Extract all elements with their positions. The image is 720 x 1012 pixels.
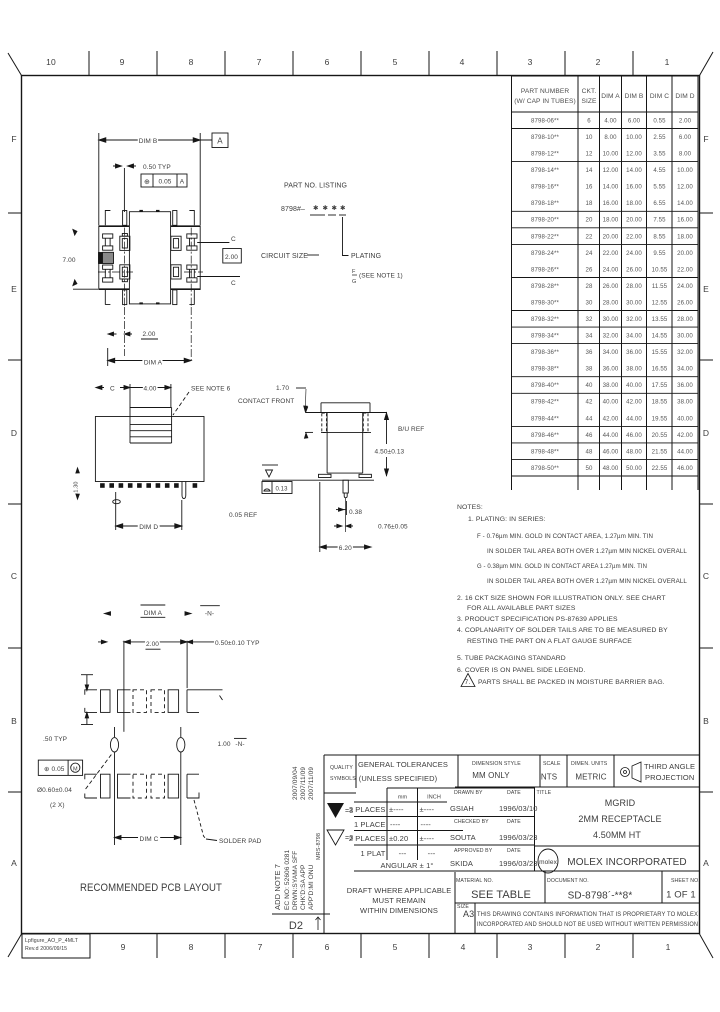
- svg-text:6.55: 6.55: [653, 200, 666, 207]
- svg-text:6.00: 6.00: [679, 134, 692, 141]
- svg-text:A: A: [217, 137, 223, 146]
- svg-text:20.00: 20.00: [677, 250, 693, 257]
- svg-text:CHECKED BY: CHECKED BY: [454, 819, 489, 825]
- svg-text:34.00: 34.00: [603, 349, 619, 356]
- svg-text:5: 5: [393, 57, 398, 67]
- svg-text:3. PRODUCT SPECIFICATION PS-87: 3. PRODUCT SPECIFICATION PS-87639 APPLIE…: [457, 616, 618, 623]
- svg-text:C: C: [231, 236, 236, 243]
- svg-text:RECOMMENDED PCB LAYOUT: RECOMMENDED PCB LAYOUT: [80, 882, 222, 894]
- svg-text:2.00: 2.00: [225, 254, 238, 261]
- svg-text:DATE: DATE: [507, 819, 521, 825]
- svg-text:2.55: 2.55: [653, 134, 666, 141]
- svg-text:1. PLATING: IN SERIES:: 1. PLATING: IN SERIES:: [468, 516, 546, 523]
- svg-text:4.50MM HT: 4.50MM HT: [593, 830, 641, 840]
- svg-text:E: E: [703, 284, 709, 294]
- svg-text:1996/03/10: 1996/03/10: [499, 804, 538, 813]
- svg-text:8798-16**: 8798-16**: [531, 184, 560, 191]
- svg-text:---: ---: [399, 849, 407, 858]
- svg-text:16.00: 16.00: [626, 184, 642, 191]
- svg-text:QUALITY: QUALITY: [330, 765, 353, 771]
- svg-text:MM ONLY: MM ONLY: [472, 771, 510, 780]
- svg-text:48.00: 48.00: [603, 465, 619, 472]
- svg-text:10: 10: [46, 57, 56, 67]
- svg-text:DIM A: DIM A: [601, 93, 620, 100]
- svg-text:14.55: 14.55: [652, 333, 668, 340]
- svg-text:38.00: 38.00: [677, 399, 693, 406]
- svg-text:----: ----: [421, 820, 432, 829]
- svg-text:NOTES:: NOTES:: [457, 504, 483, 511]
- svg-text:32.00: 32.00: [677, 349, 693, 356]
- svg-text:32.00: 32.00: [626, 316, 642, 323]
- svg-text:SCALE: SCALE: [543, 761, 561, 767]
- svg-text:2 PLACES: 2 PLACES: [349, 834, 386, 843]
- svg-text:F: F: [11, 134, 16, 144]
- svg-text:8798-20**: 8798-20**: [531, 217, 560, 224]
- svg-text:CONTACT FRONT: CONTACT FRONT: [238, 398, 294, 405]
- svg-text:24.00: 24.00: [626, 250, 642, 257]
- svg-text:DIM C: DIM C: [140, 836, 159, 843]
- svg-text:±----: ±----: [420, 805, 435, 814]
- svg-text:DIM B: DIM B: [625, 93, 644, 100]
- svg-text:6: 6: [325, 57, 330, 67]
- svg-text:NTS: NTS: [541, 773, 557, 782]
- svg-text:3.55: 3.55: [653, 151, 666, 158]
- svg-text:2. 16 CKT SIZE SHOWN FOR ILLUS: 2. 16 CKT SIZE SHOWN FOR ILLUSTRATION ON…: [457, 595, 666, 602]
- svg-text:PLATING: PLATING: [351, 253, 381, 260]
- svg-text:22.55: 22.55: [652, 465, 668, 472]
- svg-text:⊕: ⊕: [144, 179, 150, 186]
- svg-text:0.05 REF: 0.05 REF: [229, 512, 257, 519]
- svg-text:DRWN:SYAMA SFF: DRWN:SYAMA SFF: [292, 851, 299, 910]
- svg-text:0.38: 0.38: [349, 509, 362, 516]
- svg-text:34.00: 34.00: [677, 366, 693, 373]
- svg-text:8798-06**: 8798-06**: [531, 118, 560, 125]
- svg-text:.50 TYP: .50 TYP: [43, 736, 67, 743]
- svg-text:APPROVED BY: APPROVED BY: [454, 848, 493, 854]
- svg-text:30.00: 30.00: [603, 316, 619, 323]
- svg-text:----: ----: [390, 820, 401, 829]
- svg-text:C: C: [11, 571, 17, 581]
- svg-text:-N-: -N-: [205, 611, 214, 618]
- svg-text:28.00: 28.00: [626, 283, 642, 290]
- svg-text:DIM A: DIM A: [144, 360, 163, 367]
- svg-text:8798-40**: 8798-40**: [531, 382, 560, 389]
- svg-text:0.50±0.10 TYP: 0.50±0.10 TYP: [215, 640, 260, 647]
- svg-text:CIRCUIT SIZE: CIRCUIT SIZE: [261, 253, 308, 260]
- svg-text:5.55: 5.55: [653, 184, 666, 191]
- svg-text:1: 1: [666, 942, 671, 952]
- svg-text:22: 22: [586, 233, 593, 240]
- svg-text:1 OF 1: 1 OF 1: [666, 890, 696, 901]
- svg-text:2: 2: [596, 57, 601, 67]
- svg-text:28.00: 28.00: [603, 300, 619, 307]
- svg-text:D: D: [703, 428, 709, 438]
- svg-text:1996/03/23: 1996/03/23: [499, 833, 538, 842]
- svg-text:8798-12**: 8798-12**: [531, 151, 560, 158]
- svg-text:0.13: 0.13: [275, 487, 288, 493]
- svg-text:±0.20: ±0.20: [389, 834, 408, 843]
- svg-text:2007/11/09: 2007/11/09: [308, 767, 315, 800]
- svg-text:20: 20: [586, 217, 593, 224]
- svg-text:18: 18: [586, 200, 593, 207]
- svg-text:D: D: [11, 428, 17, 438]
- svg-text:-N-: -N-: [235, 741, 244, 748]
- svg-text:32: 32: [586, 316, 593, 323]
- svg-text:18.00: 18.00: [626, 200, 642, 207]
- svg-text:MRS-8798: MRS-8798: [316, 833, 322, 860]
- svg-text:8798-28**: 8798-28**: [531, 283, 560, 290]
- svg-text:46.00: 46.00: [603, 448, 619, 455]
- svg-text:B/U REF: B/U REF: [398, 426, 424, 433]
- svg-text:8798-26**: 8798-26**: [531, 266, 560, 273]
- svg-text:6.00: 6.00: [628, 118, 641, 125]
- svg-text:M: M: [73, 766, 78, 772]
- svg-text:8798-32**: 8798-32**: [531, 316, 560, 323]
- svg-text:16.00: 16.00: [677, 217, 693, 224]
- svg-text:18.00: 18.00: [677, 233, 693, 240]
- svg-text:14.00: 14.00: [603, 184, 619, 191]
- svg-text:8798#–: 8798#–: [281, 206, 305, 213]
- svg-text:Lpfigure_AO_P_4MLT: Lpfigure_AO_P_4MLT: [25, 938, 79, 944]
- svg-text:30.00: 30.00: [677, 333, 693, 340]
- svg-text:8.00: 8.00: [679, 151, 692, 158]
- svg-text:40.00: 40.00: [603, 399, 619, 406]
- svg-text:B: B: [11, 716, 17, 726]
- svg-text:0.50 TYP: 0.50 TYP: [143, 164, 171, 171]
- svg-text:FOR ALL AVAILABLE PART SIZES: FOR ALL AVAILABLE PART SIZES: [467, 605, 576, 612]
- svg-text:24.00: 24.00: [603, 266, 619, 273]
- svg-text:4.00: 4.00: [143, 386, 156, 393]
- svg-text:SOUTA: SOUTA: [450, 833, 476, 842]
- svg-text:TITLE: TITLE: [537, 790, 552, 796]
- svg-text:DATE: DATE: [507, 790, 521, 796]
- svg-text:ANGULAR ± 1°: ANGULAR ± 1°: [381, 861, 434, 870]
- svg-text:EC NO: 52606 0281: EC NO: 52606 0281: [284, 849, 291, 910]
- svg-text:26.00: 26.00: [603, 283, 619, 290]
- svg-text:ADD NOTE 7: ADD NOTE 7: [273, 864, 282, 910]
- svg-text:✱: ✱: [313, 204, 319, 212]
- svg-text:B: B: [703, 716, 709, 726]
- svg-text:PARTS SHALL BE PACKED IN MOIST: PARTS SHALL BE PACKED IN MOISTURE BARRIE…: [478, 679, 665, 686]
- svg-text:9.55: 9.55: [653, 250, 666, 257]
- svg-text:21.55: 21.55: [652, 448, 668, 455]
- svg-text:E: E: [11, 284, 17, 294]
- svg-text:22.00: 22.00: [626, 233, 642, 240]
- svg-text:Rev.d 2006/09/15: Rev.d 2006/09/15: [25, 946, 67, 952]
- svg-text:A: A: [180, 179, 185, 186]
- svg-text:(W/ CAP IN TUBES): (W/ CAP IN TUBES): [514, 98, 576, 105]
- svg-text:11.55: 11.55: [652, 283, 668, 290]
- svg-text:12.00: 12.00: [677, 184, 693, 191]
- svg-text:46.00: 46.00: [626, 432, 642, 439]
- svg-text:13.55: 13.55: [652, 316, 668, 323]
- svg-text:DIMENSION STYLE: DIMENSION STYLE: [472, 761, 521, 767]
- svg-text:G: G: [352, 279, 356, 285]
- svg-text:24.00: 24.00: [677, 283, 693, 290]
- svg-text:10.00: 10.00: [677, 167, 693, 174]
- svg-text:✱: ✱: [332, 204, 338, 212]
- svg-text:48: 48: [586, 448, 593, 455]
- svg-text:0.76±0.05: 0.76±0.05: [378, 524, 408, 531]
- svg-text:8798-22**: 8798-22**: [531, 233, 560, 240]
- svg-text:20.55: 20.55: [652, 432, 668, 439]
- svg-text:THIS DRAWING CONTAINS INFORMAT: THIS DRAWING CONTAINS INFORMATION THAT I…: [477, 911, 698, 918]
- svg-text:C: C: [110, 386, 115, 393]
- svg-text:GENERAL TOLERANCES: GENERAL TOLERANCES: [358, 760, 448, 769]
- svg-text:A3: A3: [463, 909, 474, 919]
- svg-text:1.30: 1.30: [74, 481, 80, 492]
- svg-text:12.00: 12.00: [626, 151, 642, 158]
- svg-text:INCH: INCH: [427, 795, 441, 801]
- svg-text:8798-18**: 8798-18**: [531, 200, 560, 207]
- svg-text:40.00: 40.00: [677, 415, 693, 422]
- svg-text:MATERIAL NO.: MATERIAL NO.: [456, 878, 493, 884]
- svg-text:8798-10**: 8798-10**: [531, 134, 560, 141]
- svg-text:THIRD ANGLE: THIRD ANGLE: [644, 762, 695, 771]
- svg-text:44.00: 44.00: [603, 432, 619, 439]
- svg-text:8798-44**: 8798-44**: [531, 415, 560, 422]
- svg-text:8.55: 8.55: [653, 233, 666, 240]
- svg-text:8798-34**: 8798-34**: [531, 333, 560, 340]
- svg-text:5. TUBE PACKAGING STANDARD: 5. TUBE PACKAGING STANDARD: [457, 655, 566, 662]
- svg-text:1: 1: [665, 57, 670, 67]
- svg-text:1 PLAT: 1 PLAT: [360, 849, 385, 858]
- svg-text:APP'D:MI ONU: APP'D:MI ONU: [308, 864, 315, 910]
- svg-text:1996/03/23: 1996/03/23: [499, 859, 538, 868]
- svg-text:38: 38: [586, 366, 593, 373]
- svg-text:SOLDER PAD: SOLDER PAD: [219, 838, 262, 845]
- svg-text:8798-38**: 8798-38**: [531, 366, 560, 373]
- svg-text:44.00: 44.00: [626, 415, 642, 422]
- svg-text:7.55: 7.55: [653, 217, 666, 224]
- svg-text:F: F: [352, 269, 356, 275]
- svg-text:6: 6: [587, 118, 591, 125]
- svg-text:2.00: 2.00: [142, 331, 155, 338]
- svg-text:10.00: 10.00: [603, 151, 619, 158]
- svg-text:2007/11/09: 2007/11/09: [300, 767, 307, 800]
- svg-text:---: ---: [428, 849, 436, 858]
- svg-text:28: 28: [586, 283, 593, 290]
- svg-text:12.00: 12.00: [603, 167, 619, 174]
- svg-text:5: 5: [393, 942, 398, 952]
- svg-text:16.00: 16.00: [603, 200, 619, 207]
- svg-text:18.55: 18.55: [652, 399, 668, 406]
- svg-text:10.00: 10.00: [626, 134, 642, 141]
- svg-text:0.55: 0.55: [653, 118, 666, 125]
- svg-text:10: 10: [586, 134, 593, 141]
- svg-text:28.00: 28.00: [677, 316, 693, 323]
- svg-text:38.00: 38.00: [603, 382, 619, 389]
- svg-text:2MM RECEPTACLE: 2MM RECEPTACLE: [578, 814, 661, 824]
- svg-text:CKT.: CKT.: [582, 88, 597, 95]
- svg-text:MOLEX INCORPORATED: MOLEX INCORPORATED: [567, 857, 686, 868]
- svg-text:50: 50: [586, 465, 593, 472]
- svg-text:7.00: 7.00: [63, 257, 76, 264]
- svg-text:Ø0.60±0.04: Ø0.60±0.04: [37, 787, 72, 794]
- svg-text:8798-30**: 8798-30**: [531, 300, 560, 307]
- svg-text:G - 0.38µm MIN. GOLD IN CONTAC: G - 0.38µm MIN. GOLD IN CONTACT AREA 1.2…: [477, 563, 647, 570]
- svg-text:PART NUMBER: PART NUMBER: [521, 88, 570, 95]
- svg-text:8798-48**: 8798-48**: [531, 448, 560, 455]
- svg-text:4.55: 4.55: [653, 167, 666, 174]
- svg-text:✱: ✱: [323, 204, 329, 212]
- svg-text:3: 3: [528, 57, 533, 67]
- svg-text:DATE: DATE: [507, 848, 521, 854]
- svg-text:6: 6: [325, 942, 330, 952]
- svg-text:34.00: 34.00: [626, 333, 642, 340]
- svg-text:D2: D2: [289, 920, 303, 932]
- svg-text:(UNLESS SPECIFIED): (UNLESS SPECIFIED): [359, 774, 438, 783]
- svg-text:SYMBOLS: SYMBOLS: [330, 776, 356, 782]
- svg-text:16.55: 16.55: [652, 366, 668, 373]
- svg-text:0.05: 0.05: [158, 179, 171, 186]
- svg-text:17.55: 17.55: [652, 382, 668, 389]
- svg-text:24: 24: [586, 250, 593, 257]
- svg-text:A: A: [11, 858, 17, 868]
- svg-text:DIMEN. UNITS: DIMEN. UNITS: [571, 761, 608, 767]
- svg-text:4.00: 4.00: [604, 118, 617, 125]
- svg-text:C: C: [231, 280, 236, 287]
- svg-text:9: 9: [121, 942, 126, 952]
- svg-text:42.00: 42.00: [626, 399, 642, 406]
- svg-text:F - 0.76µm MIN. GOLD IN CONTAC: F - 0.76µm MIN. GOLD IN CONTACT AREA, 1.…: [477, 533, 653, 540]
- svg-text:=3: =3: [345, 835, 353, 842]
- svg-text:1 PLACE: 1 PLACE: [354, 820, 386, 829]
- svg-text:6. COVER IS ON PANEL SIDE LEGE: 6. COVER IS ON PANEL SIDE LEGEND.: [457, 667, 585, 674]
- svg-text:8: 8: [189, 942, 194, 952]
- svg-text:8798-50**: 8798-50**: [531, 465, 560, 472]
- svg-text:SIZE: SIZE: [581, 98, 597, 105]
- svg-text:DRAWN BY: DRAWN BY: [454, 790, 483, 796]
- svg-text:mm: mm: [398, 795, 408, 801]
- svg-text:42.00: 42.00: [603, 415, 619, 422]
- svg-text:C: C: [703, 571, 709, 581]
- svg-text:3: 3: [528, 942, 533, 952]
- svg-text:IN SOLDER TAIL AREA BOTH OVER: IN SOLDER TAIL AREA BOTH OVER 1.27µm MIN…: [487, 548, 687, 555]
- svg-text:DIM B: DIM B: [139, 138, 158, 145]
- svg-text:F: F: [703, 134, 708, 144]
- svg-text:22.00: 22.00: [603, 250, 619, 257]
- svg-text:20.00: 20.00: [626, 217, 642, 224]
- svg-text:RESTING THE PART ON A FLAT GAU: RESTING THE PART ON A FLAT GAUGE SURFACE: [467, 638, 632, 645]
- svg-text:DRAFT WHERE APPLICABLE: DRAFT WHERE APPLICABLE: [347, 886, 452, 895]
- svg-text:✱: ✱: [340, 204, 346, 212]
- svg-text:2007/09/04: 2007/09/04: [292, 766, 299, 800]
- svg-text:16: 16: [586, 184, 593, 191]
- svg-text:DOCUMENT NO.: DOCUMENT NO.: [547, 878, 589, 884]
- svg-text:12: 12: [586, 151, 593, 158]
- svg-text:36: 36: [586, 349, 593, 356]
- svg-text:40.00: 40.00: [626, 382, 642, 389]
- svg-text:36.00: 36.00: [603, 366, 619, 373]
- svg-text:4: 4: [461, 942, 466, 952]
- svg-text:1.70: 1.70: [276, 385, 289, 392]
- svg-text:48.00: 48.00: [626, 448, 642, 455]
- svg-text:50.00: 50.00: [626, 465, 642, 472]
- svg-text:7: 7: [258, 942, 263, 952]
- svg-text:36.00: 36.00: [626, 349, 642, 356]
- svg-text:14.00: 14.00: [626, 167, 642, 174]
- svg-text:32.00: 32.00: [603, 333, 619, 340]
- svg-text:4.50±0.13: 4.50±0.13: [375, 449, 405, 456]
- svg-text:8798-36**: 8798-36**: [531, 349, 560, 356]
- svg-text:METRIC: METRIC: [575, 773, 606, 782]
- svg-text:9: 9: [120, 57, 125, 67]
- svg-text:7.: 7.: [465, 679, 471, 686]
- svg-text:30: 30: [586, 300, 593, 307]
- svg-text:PROJECTION: PROJECTION: [645, 773, 694, 782]
- svg-text:46: 46: [586, 432, 593, 439]
- svg-text:19.55: 19.55: [652, 415, 668, 422]
- svg-text:A: A: [703, 858, 709, 868]
- svg-text:30.00: 30.00: [626, 300, 642, 307]
- svg-text:INCORPORATED AND SHOULD NOT BE: INCORPORATED AND SHOULD NOT BE USED WITH…: [477, 921, 698, 928]
- svg-text:molex: molex: [539, 859, 557, 866]
- svg-text:DIM D: DIM D: [139, 524, 158, 531]
- svg-text:6.20: 6.20: [339, 545, 352, 552]
- svg-text:8: 8: [189, 57, 194, 67]
- svg-text:WITHIN DIMENSIONS: WITHIN DIMENSIONS: [360, 906, 438, 915]
- svg-text:40: 40: [586, 382, 593, 389]
- svg-text:8798-42**: 8798-42**: [531, 399, 560, 406]
- svg-text:PART NO. LISTING: PART NO. LISTING: [284, 183, 347, 190]
- svg-text:⊕ 0.05: ⊕ 0.05: [44, 766, 65, 773]
- svg-text:2: 2: [596, 942, 601, 952]
- svg-text:±----: ±----: [389, 805, 404, 814]
- svg-text:36.00: 36.00: [677, 382, 693, 389]
- svg-text:38.00: 38.00: [626, 366, 642, 373]
- svg-text:14: 14: [586, 167, 593, 174]
- svg-text:44: 44: [586, 415, 593, 422]
- svg-text:1.00: 1.00: [218, 741, 231, 748]
- svg-text:2.00: 2.00: [146, 641, 159, 648]
- svg-text:8798-14**: 8798-14**: [531, 167, 560, 174]
- svg-text:(SEE NOTE 1): (SEE NOTE 1): [359, 273, 403, 280]
- svg-text:SEE NOTE 6: SEE NOTE 6: [191, 386, 231, 393]
- svg-text:26.00: 26.00: [626, 266, 642, 273]
- svg-text:18.00: 18.00: [603, 217, 619, 224]
- svg-text:DIM C: DIM C: [650, 93, 669, 100]
- svg-text:26: 26: [586, 266, 593, 273]
- svg-text:14.00: 14.00: [677, 200, 693, 207]
- svg-text:8798-24**: 8798-24**: [531, 250, 560, 257]
- svg-text:4. COPLANARITY OF SOLDER TAILS: 4. COPLANARITY OF SOLDER TAILS ARE TO BE…: [457, 627, 668, 634]
- svg-text:GSIAH: GSIAH: [450, 804, 474, 813]
- svg-text:SD-8798´-**8*: SD-8798´-**8*: [568, 890, 633, 902]
- svg-text:MGRID: MGRID: [605, 798, 636, 808]
- svg-text:20.00: 20.00: [603, 233, 619, 240]
- svg-text:SHEET NO.: SHEET NO.: [671, 878, 700, 884]
- svg-text:=3: =3: [345, 808, 353, 815]
- svg-text:4: 4: [460, 57, 465, 67]
- svg-text:SKIDA: SKIDA: [450, 859, 473, 868]
- svg-text:2 PLACES: 2 PLACES: [349, 805, 386, 814]
- svg-text:42.00: 42.00: [677, 432, 693, 439]
- svg-text:34: 34: [586, 333, 593, 340]
- svg-text:DIM A: DIM A: [144, 610, 163, 617]
- svg-text:12.55: 12.55: [652, 300, 668, 307]
- svg-text:22.00: 22.00: [677, 266, 693, 273]
- svg-text:IN SOLDER TAIL AREA BOTH OVER: IN SOLDER TAIL AREA BOTH OVER 1.27µm MIN…: [487, 578, 687, 585]
- svg-text:(2 X): (2 X): [50, 802, 65, 809]
- svg-text:8798-46**: 8798-46**: [531, 432, 560, 439]
- svg-text:44.00: 44.00: [677, 448, 693, 455]
- svg-text:42: 42: [586, 399, 593, 406]
- svg-text:SEE TABLE: SEE TABLE: [471, 889, 531, 901]
- svg-text:26.00: 26.00: [677, 300, 693, 307]
- svg-text:10.55: 10.55: [652, 266, 668, 273]
- svg-text:DIM D: DIM D: [675, 93, 694, 100]
